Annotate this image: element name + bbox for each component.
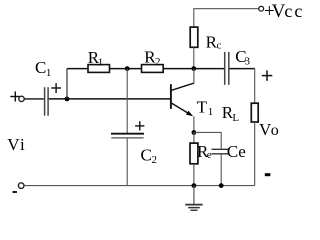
svg-text:e: e — [207, 149, 212, 161]
ground — [193, 186, 195, 205]
node emitter junction — [192, 130, 197, 135]
label + C2 — [135, 125, 144, 127]
node collector junction — [191, 66, 196, 71]
transistor T1 emitter lead with arrow — [172, 103, 189, 113]
svg-text:c: c — [284, 1, 292, 21]
node Ce bottom junction — [219, 183, 224, 188]
capacitor C3 — [224, 52, 226, 85]
svg-text:i: i — [20, 135, 25, 154]
wire R2 to C3 (collector rail) — [163, 68, 224, 70]
resistor Rc — [190, 27, 198, 47]
terminal input + — [19, 96, 24, 101]
wire C3 to output corner — [230, 68, 255, 70]
svg-text:c: c — [217, 39, 222, 51]
svg-text:C: C — [141, 145, 152, 164]
svg-text:2: 2 — [152, 154, 158, 166]
wire C1 to base — [49, 98, 170, 100]
svg-text:o: o — [271, 122, 279, 139]
label + C1 — [51, 87, 61, 89]
transistor T1 base bar — [170, 84, 172, 109]
resistor R2 — [142, 65, 164, 73]
svg-text:2: 2 — [155, 56, 161, 68]
node input junction — [65, 97, 70, 102]
wire emitter node to Ce branch — [194, 132, 221, 148]
label - input — [13, 191, 17, 193]
resistor Re — [190, 143, 198, 164]
terminal +Vcc — [259, 6, 264, 11]
svg-text:1: 1 — [46, 67, 52, 79]
node R1-R2 junction — [125, 66, 130, 71]
wire RL bottom down to bottom rail — [254, 122, 256, 186]
svg-text:L: L — [232, 112, 239, 124]
capacitor C2 bottom lead — [126, 138, 128, 186]
transistor T1 collector lead — [172, 83, 195, 90]
wire input to C1 — [24, 98, 44, 100]
svg-text:V: V — [7, 135, 20, 154]
wire Re bottom to bottom rail — [193, 164, 195, 186]
label - output — [265, 173, 271, 176]
label + output — [262, 75, 273, 77]
capacitor C2 top lead — [126, 69, 128, 134]
wire main rail y=68.6 left segment — [67, 68, 88, 70]
node Re bottom junction — [192, 183, 197, 188]
svg-text:C: C — [35, 58, 46, 77]
resistor R1 — [88, 65, 110, 73]
wire top rail from Rc to +Vcc terminal — [194, 9, 259, 27]
svg-text:T: T — [197, 98, 208, 117]
wire between R1 and R2 — [110, 68, 142, 70]
label + input — [10, 96, 19, 98]
wire output corner down to RL — [254, 69, 256, 104]
svg-text:1: 1 — [208, 106, 214, 118]
wire Rc bottom to collector node — [193, 47, 195, 68]
capacitor Ce — [212, 148, 230, 150]
wire junction up to bias rail — [66, 69, 68, 99]
svg-text:Ce: Ce — [227, 142, 246, 161]
wire emitter node to Re — [193, 133, 195, 144]
capacitor C1 — [44, 87, 46, 116]
resistor RL — [251, 103, 258, 122]
svg-text:c: c — [294, 1, 302, 21]
terminal input - — [18, 183, 24, 189]
svg-text:1: 1 — [98, 57, 104, 69]
wire bottom rail — [24, 185, 255, 187]
wire Ce bottom to bottom rail — [220, 154, 222, 186]
capacitor C2 — [111, 133, 144, 135]
svg-text:3: 3 — [245, 55, 251, 67]
